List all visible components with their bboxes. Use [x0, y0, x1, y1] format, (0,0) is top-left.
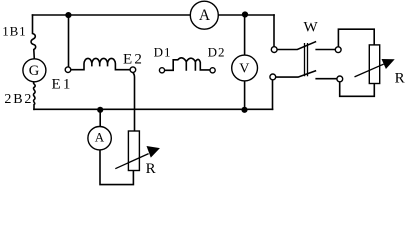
wire bottom bus [34, 108, 273, 110]
terminal switch bottom-right [337, 76, 343, 82]
wire E1 lead from top bus [68, 15, 70, 67]
junction dot bottom voltmeter branch [241, 107, 247, 113]
svg-text:R: R [146, 161, 156, 177]
wire switch bottom-right to resistor bottom [340, 82, 375, 96]
junction dot bottom ammeter branch [97, 107, 103, 113]
wire to switch top-left contact [273, 15, 275, 47]
inductor winding E1-E2 [71, 58, 130, 69]
switch W linkage bar [305, 44, 308, 76]
wire top bus [33, 14, 275, 16]
svg-text:R: R [395, 71, 405, 87]
svg-text:G: G [29, 63, 40, 79]
svg-text:D1: D1 [154, 44, 172, 59]
svg-text:A: A [95, 130, 105, 145]
winding 2B2 lower (generator brush lead with wiggle) [33, 82, 35, 110]
switch W top pole blade [277, 42, 335, 50]
svg-text:D2: D2 [208, 44, 226, 59]
wire E2 lead down to rheostat [133, 73, 135, 132]
svg-text:2B2: 2B2 [4, 92, 33, 107]
junction dot top E1 branch [65, 12, 71, 18]
svg-text:1B1: 1B1 [2, 23, 26, 38]
svg-text:E2: E2 [123, 52, 144, 68]
voltmeter V [232, 55, 258, 81]
svg-text:V: V [239, 61, 249, 76]
terminal D2 [210, 68, 215, 73]
wire ammeter A2 lead from bottom bus [99, 110, 101, 127]
switch W bottom pole blade [276, 71, 337, 79]
terminal E2 [130, 67, 136, 73]
ammeter A1 (top) [190, 1, 218, 29]
rheostat R body (right) [369, 45, 379, 84]
terminal E1 [65, 67, 71, 73]
wire switch top-right to resistor [338, 29, 374, 47]
terminal switch top-right [335, 47, 341, 53]
rheostat R arrow (bottom) [115, 146, 160, 169]
wire ammeter A2 to rheostat bottom [100, 150, 133, 185]
svg-text:E1: E1 [52, 76, 73, 92]
terminal switch bottom-left [270, 74, 276, 80]
rheostat R body (bottom) [128, 131, 139, 171]
terminal switch top-left [271, 47, 277, 53]
ammeter A2 (bottom) [88, 127, 111, 150]
terminal D1 [159, 68, 164, 73]
generator G [23, 59, 46, 82]
rheostat R arrow (right) [355, 59, 395, 77]
wire voltmeter branch [244, 15, 246, 109]
inductor winding D1-D2 [165, 58, 210, 70]
wire switch bottom-left down to bottom bus [272, 80, 274, 110]
svg-text:W: W [304, 19, 319, 35]
winding 1B1 upper (generator brush lead with wiggle) [31, 15, 36, 59]
junction dot top voltmeter branch [242, 11, 248, 17]
svg-text:A: A [199, 7, 211, 24]
